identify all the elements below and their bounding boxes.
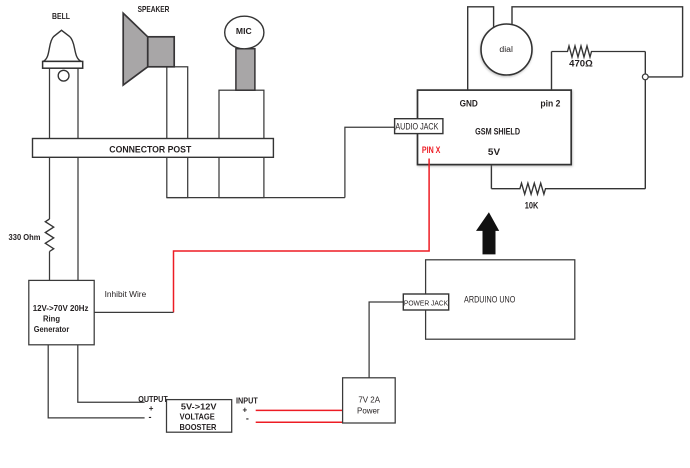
voltage booster [167, 400, 232, 433]
wire bell left lead down to 330 Ohm resistor [49, 68, 51, 219]
dial [481, 24, 532, 75]
speaker mounting post [167, 67, 188, 198]
wire right branch vertical [644, 52, 646, 189]
wire 330 Ohm resistor to ring generator [49, 252, 51, 282]
wire (red) booster input negative [256, 421, 345, 423]
svg-text:VOLTAGE: VOLTAGE [180, 412, 216, 422]
svg-text:10K: 10K [525, 201, 539, 211]
INPUT label [236, 397, 258, 424]
wire ring generator positive lead [78, 345, 145, 403]
svg-text:Ring: Ring [43, 315, 60, 324]
svg-text:Power: Power [357, 406, 380, 415]
wire audio bus vertical up to audio jack [345, 127, 395, 197]
wire ring generator negative lead [48, 345, 144, 418]
speaker [123, 13, 174, 85]
ring generator [29, 280, 94, 344]
svg-text:BOOSTER: BOOSTER [180, 422, 217, 432]
svg-text:330 Ohm: 330 Ohm [9, 232, 41, 242]
bell [43, 30, 83, 81]
svg-text:SPEAKER: SPEAKER [138, 5, 170, 14]
svg-text:Generator: Generator [34, 325, 69, 334]
resistor 470Ω [552, 46, 646, 57]
svg-text:POWER JACK: POWER JACK [404, 298, 448, 307]
Arduino Uno [426, 260, 575, 339]
wire power supply to power jack [369, 302, 403, 378]
svg-text:12V->70V 20Hz: 12V->70V 20Hz [33, 304, 89, 313]
wire inhibit wire from ring generator [94, 311, 173, 313]
wire dial to top right loop [512, 7, 683, 77]
svg-text:Inhibit Wire: Inhibit Wire [105, 289, 147, 299]
7V 2A power supply [343, 378, 396, 423]
power jack [403, 294, 448, 310]
svg-text:5V->12V: 5V->12V [181, 402, 217, 412]
wire GND lead up from GSM shield [468, 7, 494, 90]
svg-text:BELL: BELL [52, 12, 70, 21]
wire bell right lead down to ring generator [77, 68, 79, 281]
OUTPUT label [138, 395, 168, 422]
svg-text:-: - [246, 414, 249, 424]
wire 5V lead down from GSM shield [490, 165, 492, 189]
svg-text:GSM SHIELD: GSM SHIELD [475, 127, 520, 137]
wire node to right loop [646, 76, 683, 78]
svg-text:MIC: MIC [236, 27, 252, 36]
svg-text:470Ω: 470Ω [569, 58, 593, 68]
svg-text:CONNECTOR POST: CONNECTOR POST [109, 143, 191, 154]
resistor 10K [491, 183, 645, 194]
svg-text:7V 2A: 7V 2A [358, 395, 380, 404]
wire audio bus bottom horizontal [167, 197, 345, 199]
svg-text:5V: 5V [488, 146, 501, 157]
svg-text:GND: GND [460, 97, 478, 108]
connector post [33, 139, 274, 158]
svg-text:-: - [149, 412, 152, 422]
audio jack [395, 119, 443, 134]
microphone mounting post [219, 90, 264, 197]
svg-text:OUTPUT: OUTPUT [138, 395, 168, 404]
svg-text:pin 2: pin 2 [540, 97, 560, 108]
svg-text:INPUT: INPUT [236, 397, 258, 406]
arrow pointing up to arduino [476, 212, 499, 254]
wire (red) booster input positive [256, 409, 343, 411]
resistor 330 Ohm [45, 219, 53, 251]
wire pin 2 lead up from GSM shield [551, 52, 553, 91]
svg-text:AUDIO JACK: AUDIO JACK [395, 122, 438, 132]
GSM shield [418, 90, 572, 165]
wire (red) PIN X to inhibit wire [174, 159, 430, 313]
svg-text:ARDUINO UNO: ARDUINO UNO [464, 295, 515, 305]
microphone [225, 16, 264, 90]
svg-text:PIN X: PIN X [422, 145, 441, 155]
node junction (open) [642, 74, 648, 80]
svg-text:dial: dial [499, 45, 513, 54]
